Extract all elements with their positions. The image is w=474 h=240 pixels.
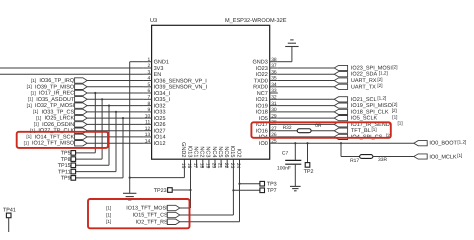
wire net IO21_SCL from pin 32 <box>278 98 334 100</box>
pin 34 stub <box>270 86 278 88</box>
svg-text:21: 21 <box>217 163 223 169</box>
svg-text:[1,2]: [1,2] <box>379 71 388 76</box>
net tag IO17_IR_SEND <box>334 122 347 127</box>
svg-text:1: 1 <box>147 57 150 63</box>
pin 26 stub <box>270 136 278 138</box>
svg-text:2: 2 <box>147 63 150 69</box>
net tag IO21_SCL <box>334 97 347 102</box>
ground symbol top-right <box>285 46 298 48</box>
svg-text:IO39_TP_MISO: IO39_TP_MISO <box>35 84 75 90</box>
wire riser IO13_TFT_MOSI <box>190 168 192 208</box>
svg-text:[1]: [1] <box>26 134 31 139</box>
wire GND2 vertical <box>183 168 185 178</box>
svg-text:IO0: IO0 <box>259 141 268 147</box>
svg-text:TP11: TP11 <box>58 169 70 175</box>
wire net IO14_TFT_SCK to pin 13 <box>87 136 144 138</box>
svg-text:[1]: [1] <box>36 115 41 120</box>
wire net IO17_IR_SEND from pin 28 <box>278 123 334 125</box>
svg-text:[1]: [1] <box>106 212 111 217</box>
pin 28 stub <box>270 123 278 125</box>
pin 24 stub <box>239 159 241 167</box>
wire net IO23_SPI_MOSI from pin 37 <box>278 67 334 69</box>
wire to R17 <box>341 156 360 158</box>
junction R17 branch <box>340 142 342 144</box>
svg-text:14: 14 <box>145 138 151 144</box>
net tag IO32_TP_MOSI <box>75 103 88 108</box>
svg-text:38: 38 <box>271 57 277 63</box>
test point square TP9 <box>71 176 76 181</box>
test point square TP7 <box>260 188 265 193</box>
module U3 M_ESP32-WROOM-32E body <box>152 25 270 159</box>
wire net IO0 to IO0_BOOT tag <box>278 142 414 144</box>
svg-text:13: 13 <box>145 132 151 138</box>
junction riser TP5 <box>94 92 96 94</box>
svg-text:3: 3 <box>147 69 150 75</box>
svg-text:7: 7 <box>147 95 150 101</box>
wire net UART_RX from pin 35 <box>278 80 334 82</box>
svg-text:IO36_SENSOR_VP_I: IO36_SENSOR_VP_I <box>154 78 208 84</box>
wire C7 down to ground <box>294 164 296 186</box>
svg-text:IO5_SCLK: IO5_SCLK <box>351 116 378 122</box>
pin 30 stub <box>270 111 278 113</box>
svg-text:NC5: NC5 <box>217 146 223 157</box>
pin 21 stub <box>220 159 222 167</box>
svg-text:[1]: [1] <box>34 122 39 127</box>
svg-text:[1,2]: [1,2] <box>457 140 466 145</box>
test point square TP11 <box>71 169 76 174</box>
svg-text:TP3: TP3 <box>267 182 277 188</box>
svg-text:UART_RX: UART_RX <box>351 78 377 84</box>
svg-text:IO0_MCLK: IO0_MCLK <box>429 154 457 160</box>
wire GND2 horizontal to GND1 vertical <box>130 177 185 179</box>
pin 19 stub <box>208 159 210 167</box>
wire GND1 vertical down <box>129 62 131 194</box>
wire TP9 horizontal <box>76 177 123 179</box>
svg-text:3V3: 3V3 <box>154 66 164 72</box>
test point square TP15 <box>71 163 76 168</box>
svg-text:IO12_TFT_MISO: IO12_TFT_MISO <box>32 141 75 147</box>
svg-text:TP23: TP23 <box>154 188 167 194</box>
pin 12 stub <box>144 130 152 132</box>
svg-text:[1]: [1] <box>106 219 111 224</box>
svg-text:GND3: GND3 <box>253 60 268 66</box>
svg-text:[1]: [1] <box>457 153 462 158</box>
svg-text:18: 18 <box>198 163 204 169</box>
pin 23 stub <box>232 159 234 167</box>
svg-text:[1]: [1] <box>27 103 32 108</box>
junction riser TP9 <box>122 117 124 119</box>
wire net IO36_TP_IRQ to pin 4 <box>87 80 144 82</box>
wire IO2_TFT_RS horizontal <box>180 221 240 223</box>
pin 6 stub <box>144 92 152 94</box>
pin 22 stub <box>226 159 228 167</box>
svg-text:23: 23 <box>229 163 235 169</box>
svg-text:TFT_BL: TFT_BL <box>351 128 371 134</box>
junction riser TP11 <box>115 111 117 113</box>
svg-text:6: 6 <box>147 88 150 94</box>
svg-text:27: 27 <box>271 126 277 132</box>
svg-text:35: 35 <box>271 76 277 82</box>
wire net IO27_TP_CLK to pin 12 <box>87 130 144 132</box>
red highlight box TFT_BL <box>251 122 390 138</box>
net tag IO23_SPI_MOSI <box>334 65 347 70</box>
net tag UART_RX <box>334 78 347 83</box>
svg-text:[1]: [1] <box>398 121 403 126</box>
svg-text:TP5: TP5 <box>61 151 71 157</box>
wire riser IO2_TFT_RS <box>239 168 241 222</box>
net tag IO25_LRCK <box>75 115 88 120</box>
pin 15 stub <box>183 159 185 167</box>
junction GND1/GND2 <box>129 177 131 179</box>
pin 17 stub <box>196 159 198 167</box>
svg-text:8: 8 <box>147 101 150 107</box>
svg-text:IO39_SENSOR_VN_I: IO39_SENSOR_VN_I <box>154 85 208 91</box>
test point square TP41 <box>6 213 11 218</box>
wire riser TP9 from net row <box>122 118 124 178</box>
junction riser TP15 <box>108 105 110 107</box>
svg-text:[2]: [2] <box>377 77 382 82</box>
pin 38 stub <box>270 61 278 63</box>
svg-text:IO25: IO25 <box>154 116 166 122</box>
svg-text:IO32: IO32 <box>154 103 166 109</box>
svg-text:NC6: NC6 <box>223 146 229 157</box>
test point square TP2 <box>305 163 310 168</box>
svg-text:[2]: [2] <box>392 64 397 69</box>
svg-text:TP9: TP9 <box>61 176 71 182</box>
wire riser TP5 from net row <box>94 93 96 153</box>
svg-text:37: 37 <box>271 63 277 69</box>
svg-text:C7: C7 <box>282 151 289 157</box>
svg-text:NC4: NC4 <box>211 146 217 157</box>
wire net IO26_DSDIN to pin 11 <box>87 123 144 125</box>
svg-text:IO22_SDA: IO22_SDA <box>351 72 378 78</box>
wire net IO35_ASDOUT to pin 7 <box>87 98 144 100</box>
wire R17 to IO0_MCLK tag <box>373 156 414 158</box>
wire R32 to TFT_BL tag <box>311 130 334 132</box>
svg-text:32: 32 <box>271 95 277 101</box>
svg-text:0R: 0R <box>315 123 322 129</box>
pin 5 stub <box>144 86 152 88</box>
svg-text:36: 36 <box>271 69 277 75</box>
pin 36 stub <box>270 73 278 75</box>
svg-text:17: 17 <box>192 163 198 169</box>
net tag IO18_SPI_CLK <box>334 109 347 114</box>
svg-text:[2]: [2] <box>392 102 397 107</box>
svg-text:29: 29 <box>271 113 277 119</box>
svg-text:RXD0: RXD0 <box>253 85 268 91</box>
svg-text:[2]: [2] <box>392 108 397 113</box>
wire riser TP15 from net row <box>108 106 110 166</box>
wire IO16 to R32 <box>278 130 297 132</box>
resistor R32 <box>297 129 311 133</box>
svg-text:GND1: GND1 <box>154 60 169 66</box>
svg-text:IO16: IO16 <box>256 129 268 135</box>
pin 27 stub <box>270 130 278 132</box>
pin 16 stub <box>190 159 192 167</box>
svg-text:31: 31 <box>271 101 277 107</box>
wire net IO19_SPI_MISO from pin 31 <box>278 105 334 107</box>
svg-text:U3: U3 <box>150 18 157 24</box>
net tag IO39_TP_MISO <box>75 84 88 89</box>
svg-text:IO19_SPI_MISO: IO19_SPI_MISO <box>351 103 393 109</box>
net tag IO22_SDA <box>334 72 347 77</box>
ground symbol bottom-left <box>123 192 136 194</box>
wire IO0 down to C7 <box>294 143 296 160</box>
svg-text:IO21: IO21 <box>256 97 268 103</box>
svg-text:UART_TX: UART_TX <box>351 84 376 90</box>
svg-text:33: 33 <box>271 88 277 94</box>
wire net IO33_TP_CS to pin 9 <box>87 111 144 113</box>
net tag IO0_MCLK <box>414 154 427 159</box>
svg-text:IO35_I: IO35_I <box>154 97 171 103</box>
svg-text:IO36_TP_IRQ: IO36_TP_IRQ <box>39 78 75 84</box>
pin 35 stub <box>270 80 278 82</box>
svg-text:IO2: IO2 <box>235 149 241 158</box>
svg-text:NC1: NC1 <box>192 146 198 157</box>
wire GND3 vertical up <box>291 47 293 62</box>
svg-text:TP2: TP2 <box>304 169 314 175</box>
svg-text:16: 16 <box>186 163 192 169</box>
svg-text:[1]: [1] <box>24 141 29 146</box>
wire net IO4_SPI_CS from pin 26 <box>278 136 334 138</box>
svg-text:[1]: [1] <box>33 109 38 114</box>
svg-text:TP15: TP15 <box>58 163 71 169</box>
wire net IO17_IR_REC to pin 6 <box>87 92 144 94</box>
svg-text:100nF: 100nF <box>277 166 291 172</box>
wire net IO39_TP_MISO to pin 5 <box>87 86 144 88</box>
svg-text:NC2: NC2 <box>199 146 205 157</box>
wire IO13_TFT_MOSI horizontal <box>180 207 191 209</box>
svg-text:[1]: [1] <box>27 84 32 89</box>
pin 2 stub <box>144 67 152 69</box>
svg-text:NC3: NC3 <box>205 146 211 157</box>
svg-text:10: 10 <box>145 113 151 119</box>
pin 7 stub <box>144 98 152 100</box>
wire net IO18_SPI_CLK from pin 30 <box>278 111 334 113</box>
wire riser TP11 from net row <box>115 112 117 172</box>
svg-text:IO14: IO14 <box>154 135 166 141</box>
ground symbol under C7 <box>290 185 301 187</box>
pin 33 stub <box>270 92 278 94</box>
svg-text:IO23: IO23 <box>256 66 268 72</box>
wire TP8 horizontal <box>76 158 103 160</box>
pin 13 stub <box>144 136 152 138</box>
junction TP3/IO2 riser <box>238 183 240 185</box>
svg-text:R17: R17 <box>350 158 359 164</box>
net tag IO17_IR_REC <box>75 90 88 95</box>
svg-text:TP7: TP7 <box>267 188 277 194</box>
pin 11 stub <box>144 123 152 125</box>
pin 29 stub <box>270 117 278 119</box>
resistor R17 <box>360 155 373 159</box>
red highlight box IO13/IO15/IO2 TFT <box>88 199 190 228</box>
net tag IO2_TFT_RS <box>167 219 180 224</box>
svg-text:TP41: TP41 <box>3 207 16 213</box>
net tag IO4_SPI_CS <box>334 134 347 139</box>
svg-text:19: 19 <box>205 163 211 169</box>
wire riser TP8 from net row <box>101 99 103 159</box>
svg-text:IO12: IO12 <box>154 141 166 147</box>
wire TP7 <box>233 189 259 191</box>
svg-text:33R: 33R <box>378 157 387 163</box>
net tag IO13_TFT_MOSI <box>167 205 180 210</box>
pin 9 stub <box>144 111 152 113</box>
svg-text:[1]: [1] <box>392 114 397 119</box>
pin 32 stub <box>270 98 278 100</box>
pin 18 stub <box>202 159 204 167</box>
test point square TP5 <box>71 151 76 156</box>
svg-text:TP8: TP8 <box>61 157 71 163</box>
net tag IO19_SPI_MISO <box>334 103 347 108</box>
test point square TP3 <box>260 181 265 186</box>
svg-text:IO15: IO15 <box>229 145 235 157</box>
svg-text:IO26: IO26 <box>154 122 166 128</box>
svg-text:IO17_IR_REC: IO17_IR_REC <box>39 91 74 97</box>
svg-text:IO34_I: IO34_I <box>154 91 171 97</box>
svg-text:IO2_TFT_RS: IO2_TFT_RS <box>136 219 168 225</box>
svg-text:9: 9 <box>147 107 150 113</box>
svg-text:IO35_ASDOUT: IO35_ASDOUT <box>36 97 75 103</box>
svg-text:IO33: IO33 <box>154 110 166 116</box>
wire net IO22_SDA from pin 36 <box>278 73 334 75</box>
svg-text:[1]: [1] <box>28 97 33 102</box>
svg-text:22: 22 <box>223 163 229 169</box>
svg-text:M_ESP32-WROOM-32E: M_ESP32-WROOM-32E <box>225 18 287 24</box>
pin 37 stub <box>270 67 278 69</box>
junction C7 <box>294 142 296 144</box>
junction riser TP8 <box>101 98 103 100</box>
svg-text:24: 24 <box>235 163 241 169</box>
svg-text:IO0_BOOT: IO0_BOOT <box>429 141 457 147</box>
wire TP5 horizontal <box>76 152 96 154</box>
svg-text:15: 15 <box>180 163 186 169</box>
svg-text:IO5: IO5 <box>259 116 268 122</box>
wire net IO12_TFT_MISO to pin 14 <box>87 142 144 144</box>
net tag IO5_SCLK <box>334 116 347 121</box>
svg-text:IO13: IO13 <box>186 145 192 157</box>
svg-text:12: 12 <box>145 126 151 132</box>
wire net IO5_SCLK from pin 29 <box>278 117 334 119</box>
net tag IO36_TP_IRQ <box>75 78 88 83</box>
svg-text:30: 30 <box>271 107 277 113</box>
svg-text:11: 11 <box>145 120 150 126</box>
wire TP41 down <box>8 218 10 232</box>
test point square TP23 <box>168 188 173 193</box>
junction TP7/IO15 riser <box>232 189 234 191</box>
net tag IO15_TFT_CS <box>167 212 180 217</box>
net tag IO33_TP_CS <box>75 109 88 114</box>
svg-text:4: 4 <box>147 76 150 82</box>
pin 20 stub <box>214 159 216 167</box>
wire net IO25_LRCK to pin 10 <box>87 117 144 119</box>
net tag UART_TX <box>334 84 347 89</box>
wire IO0 down to R17 row <box>340 143 342 156</box>
wire GND1 pin1 to vertical <box>130 61 144 63</box>
svg-text:EN: EN <box>154 72 162 78</box>
svg-text:NC7: NC7 <box>257 91 268 97</box>
svg-text:IO14_TFT_SCK: IO14_TFT_SCK <box>35 134 75 140</box>
red highlight box IO14_TFT_SCK / IO12_TFT_MISO <box>17 132 108 148</box>
wire net UART_TX from pin 34 <box>278 86 334 88</box>
net tag IO0_BOOT <box>414 141 427 146</box>
svg-text:GND2: GND2 <box>180 142 186 157</box>
svg-text:5: 5 <box>147 82 150 88</box>
svg-text:IO18_SPI_CLK: IO18_SPI_CLK <box>351 109 389 115</box>
svg-text:[1]: [1] <box>31 78 36 83</box>
pin 31 stub <box>270 105 278 107</box>
svg-text:IO27: IO27 <box>154 129 166 135</box>
wire TP15 horizontal <box>76 164 109 166</box>
svg-text:25: 25 <box>271 138 277 144</box>
svg-text:R32: R32 <box>283 125 292 131</box>
net tag TFT_BL <box>334 128 347 133</box>
svg-text:[1]: [1] <box>31 90 36 95</box>
svg-text:IO26_DSDIN: IO26_DSDIN <box>42 122 74 128</box>
pin 10 stub <box>144 117 152 119</box>
svg-text:[1]: [1] <box>372 127 377 132</box>
svg-text:TXD0: TXD0 <box>254 78 268 84</box>
net tag IO27_TP_CLK <box>75 128 88 133</box>
svg-text:IO22: IO22 <box>256 72 268 78</box>
pin 8 stub <box>144 105 152 107</box>
capacitor C7 <box>285 159 301 161</box>
pin 1 stub <box>144 61 152 63</box>
net tag IO35_ASDOUT <box>75 97 88 102</box>
svg-text:IO32_TP_MOSI: IO32_TP_MOSI <box>35 103 75 109</box>
svg-text:20: 20 <box>211 163 217 169</box>
net tag IO14_TFT_SCK <box>75 134 88 139</box>
wire EN to left edge <box>0 73 144 75</box>
pin 4 stub <box>144 80 152 82</box>
wire TP3 <box>240 183 260 185</box>
wire riser IO15_TFT_CS <box>232 168 234 215</box>
wire IO0 down to TP2 <box>307 143 309 163</box>
wire TP23 to IO13 riser <box>172 189 190 191</box>
svg-text:IO25_LRCK: IO25_LRCK <box>45 116 75 122</box>
svg-text:IO19: IO19 <box>256 103 268 109</box>
wire 3V3 to left edge <box>0 67 144 69</box>
wire IO15_TFT_CS horizontal <box>180 214 234 216</box>
svg-text:[2]: [2] <box>377 83 382 88</box>
svg-text:[1]: [1] <box>106 205 111 210</box>
svg-text:IO21_SCL: IO21_SCL <box>351 97 377 103</box>
wire net IO32_TP_MOSI to pin 8 <box>87 105 144 107</box>
svg-text:34: 34 <box>271 82 277 88</box>
svg-text:IO18: IO18 <box>256 110 268 116</box>
wire GND3 <box>278 61 292 63</box>
svg-text:IO15_TFT_CS: IO15_TFT_CS <box>133 213 168 219</box>
junction TP23/IO13 <box>189 189 191 191</box>
net tag IO12_TFT_MISO <box>75 141 88 146</box>
svg-text:IO33_TP_CS: IO33_TP_CS <box>41 109 74 115</box>
net tag IO26_DSDIN <box>75 122 88 127</box>
svg-text:IO13_TFT_MOSI: IO13_TFT_MOSI <box>126 206 167 212</box>
junction TP2 <box>306 142 308 144</box>
pin 25 stub <box>270 142 278 144</box>
pin 14 stub <box>144 142 152 144</box>
test point square TP8 <box>71 157 76 162</box>
pin 3 stub <box>144 73 152 75</box>
wire TP11 horizontal <box>76 171 116 173</box>
svg-text:[1,2]: [1,2] <box>377 96 386 101</box>
